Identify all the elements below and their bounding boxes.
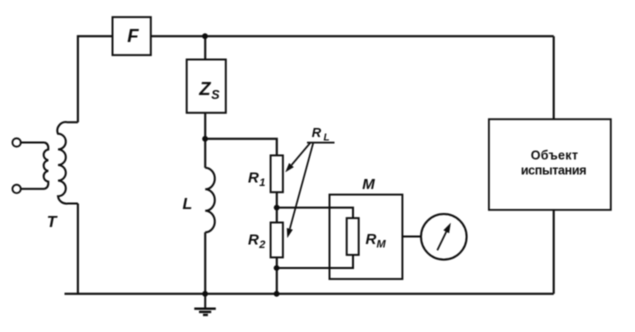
node junction between R1 and R2	[274, 205, 280, 211]
resistor R2	[248, 223, 283, 258]
label RL with leader arrows	[285, 125, 334, 238]
wire node to R1 branch	[205, 139, 277, 156]
svg-text:R: R	[366, 231, 377, 248]
node junction top rail	[202, 33, 208, 39]
wire top rail	[151, 35, 554, 37]
wire bottom rail	[65, 293, 554, 295]
node junction L at bottom rail	[202, 291, 208, 297]
node junction below Zs	[202, 136, 208, 142]
wire R1 to R2	[276, 192, 278, 222]
svg-text:R: R	[248, 231, 259, 248]
svg-text:2: 2	[258, 239, 265, 251]
wire junction to RM bottom	[277, 255, 353, 268]
transformer T	[12, 122, 78, 231]
svg-text:S: S	[211, 88, 220, 102]
wire junction to RM top	[277, 208, 353, 219]
svg-text:F: F	[127, 25, 139, 46]
impedance Zs	[187, 60, 226, 113]
resistor R1	[248, 155, 283, 192]
svg-text:испытания: испытания	[521, 164, 586, 178]
wire Zs to node	[204, 113, 206, 139]
inductor L	[183, 168, 215, 233]
ground	[194, 294, 216, 315]
wire right side top	[553, 36, 555, 119]
svg-text:R: R	[312, 125, 322, 140]
svg-text:1: 1	[259, 177, 265, 189]
svg-text:T: T	[47, 214, 58, 231]
wire node down to L	[204, 139, 206, 168]
test object box	[489, 119, 611, 210]
meter instrument	[421, 214, 467, 260]
svg-text:L: L	[324, 132, 330, 143]
wire right side bottom	[553, 210, 555, 294]
node junction below R2	[274, 265, 280, 271]
svg-text:Z: Z	[198, 78, 211, 99]
measuring device box M	[330, 176, 403, 279]
svg-text:L: L	[183, 196, 193, 213]
svg-text:R: R	[248, 169, 259, 186]
wire transformer to bottom rail	[77, 204, 79, 294]
node junction R2 at bottom rail	[274, 291, 280, 297]
wire junction to Zs	[204, 36, 206, 59]
wire M box to meter	[402, 236, 421, 238]
svg-text:Объект: Объект	[531, 149, 579, 163]
svg-text:M: M	[362, 176, 375, 193]
wire L to bottom rail	[204, 232, 206, 293]
wire top-left from transformer to fuse	[78, 36, 113, 122]
resistor RM	[347, 218, 387, 255]
wire R2 to bottom rail	[276, 257, 278, 293]
fuse F	[113, 17, 151, 55]
svg-text:M: M	[377, 239, 387, 251]
